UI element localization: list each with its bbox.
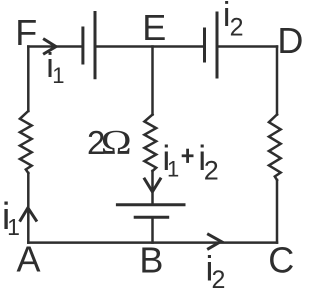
label i1+i2 on middle branch [162, 138, 218, 186]
middle wire battery to B [151, 219, 154, 243]
svg-text:2: 2 [230, 13, 244, 41]
middle wire from E [151, 47, 154, 115]
resistor 2 ohm middle (zigzag) [144, 115, 156, 172]
wire cell 1 to E to cell 2 [97, 45, 204, 48]
arrow i1+i2 down on middle wire [145, 179, 161, 192]
resistor right leg (zigzag) [269, 115, 281, 181]
middle wire resistor to battery [151, 171, 154, 203]
svg-text:F: F [15, 12, 37, 53]
bottom wire A-B-C [28, 241, 277, 244]
svg-text:2: 2 [204, 156, 219, 186]
svg-text:1: 1 [167, 156, 179, 181]
left wire upper segment [27, 47, 30, 112]
left wire lower segment [27, 173, 30, 243]
resistor left leg (zigzag) [20, 111, 32, 173]
svg-text:E: E [142, 7, 166, 48]
battery cell at B [117, 205, 184, 218]
right wire lower segment [276, 180, 279, 243]
svg-text:B: B [139, 239, 163, 280]
plus sign [182, 154, 194, 157]
svg-text:1: 1 [52, 63, 64, 88]
wire F to cell 1 [28, 45, 81, 48]
svg-text:2: 2 [212, 266, 226, 294]
wire cell 2 to D corner [219, 45, 278, 48]
battery cell i2 between E and D [205, 13, 218, 77]
arrow i1 right on top wire [44, 39, 56, 53]
svg-text:Ω: Ω [101, 124, 132, 162]
svg-text:D: D [277, 20, 303, 61]
arrow i2 right on bottom wire [209, 234, 222, 248]
svg-text:A: A [17, 238, 41, 279]
svg-text:1: 1 [7, 214, 20, 240]
right wire upper segment [276, 47, 279, 115]
battery cell between F and E [83, 13, 95, 78]
svg-text:C: C [268, 240, 294, 281]
arrow i1 up on left wire [20, 208, 36, 221]
